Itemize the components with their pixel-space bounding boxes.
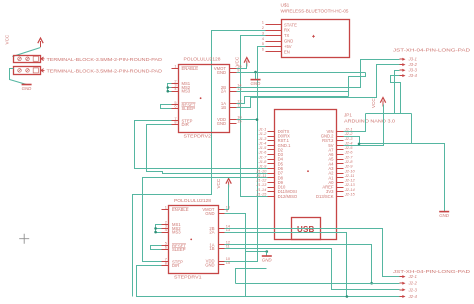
- svg-text:2A: 2A: [209, 230, 214, 235]
- svg-text:13: 13: [237, 86, 241, 91]
- STEPDRV1 MS1-MS2-MS3 tie wire: [156, 225, 162, 233]
- terminal block J4 pad arrow: [41, 57, 45, 61]
- JP1 pin J2-8 A4: [337, 163, 344, 165]
- U$1 pin 2 RX: [266, 30, 282, 32]
- STEPDRV2 pin 14 2B: [230, 87, 237, 89]
- terminal block J5 TERMINAL-BLOCK-3.5MM-2-PIN-ROUND-PAD: [14, 67, 41, 75]
- svg-text:J3-4: J3-4: [408, 73, 418, 78]
- connector J2 pad 3: [400, 289, 403, 291]
- STEPDRV2 pin 13 2A: [230, 91, 237, 93]
- wire U$1 RX net (to STEPDRV2 region): [133, 31, 266, 297]
- wire STEPDRV1 GND to ground below USB: [225, 214, 246, 297]
- STEPDRV2 pin 9 GND: [230, 72, 237, 74]
- STEPDRV2 pin 5 RESET: [172, 104, 179, 106]
- JP1 pin J2-14 3V3: [337, 191, 344, 193]
- JP1 pin J1-13 D10: [268, 187, 275, 189]
- JP1 pin J2-5 A7: [337, 149, 344, 151]
- wire nano VIN to upper bus: [344, 114, 366, 132]
- svg-text:TERMINAL-BLOCK-3.5MM-2-PIN-ROU: TERMINAL-BLOCK-3.5MM-2-PIN-ROUND-PAD: [47, 69, 163, 74]
- JP1 pin J1-9 D6: [268, 168, 275, 170]
- STEPDRV1 pin 1 ENABLE: [162, 209, 169, 211]
- junction GND net at 255.5,72: [254, 71, 257, 74]
- svg-text:JST-XH-04-PIN-LONG-PAD: JST-XH-04-PIN-LONG-PAD: [393, 269, 471, 274]
- svg-text:GND: GND: [251, 81, 262, 86]
- svg-text:9: 9: [226, 208, 228, 213]
- JP1 pin J1-5 D2: [268, 149, 275, 151]
- svg-text:J2-4: J2-4: [408, 294, 418, 299]
- svg-text:SLEEP: SLEEP: [172, 247, 186, 252]
- STEPDRV1 pin 14 2B: [219, 228, 225, 230]
- ground symbol (top-left): [22, 84, 32, 86]
- JP1 pin J1-2 D0/RX: [268, 136, 275, 138]
- JP1 pin J1-12 D9: [268, 182, 275, 184]
- wire STEPDRV1 1B to J2-3: [225, 249, 400, 290]
- svg-text:MS3: MS3: [182, 89, 191, 94]
- wire terminal block J5 to GND: [10, 69, 27, 85]
- JP1 pin J2-15 D13/SCK: [337, 196, 344, 198]
- JP1 pin J1-7 D4: [268, 159, 275, 161]
- wire J3-3 down right bus: [395, 71, 400, 114]
- power flag VCC (top-left): [40, 41, 42, 47]
- svg-text:TERMINAL-BLOCK-3.5MM-2-PIN-ROU: TERMINAL-BLOCK-3.5MM-2-PIN-ROUND-PAD: [47, 57, 163, 62]
- junction bottom bus 2A: [346, 295, 349, 298]
- wire upper right bus horizontal: [366, 113, 412, 115]
- connector J3 pad 2: [400, 64, 403, 66]
- STEPDRV2 pin 16 VMOT: [230, 68, 237, 70]
- svg-text:DIR: DIR: [182, 122, 189, 127]
- power flag VCC at STEPDRV1 VMOT: [228, 182, 230, 188]
- STEPDRV1 RESET-SLEEP tie wire: [151, 246, 162, 250]
- svg-text:SLEEP: SLEEP: [182, 106, 196, 111]
- ground symbol right (below bus): [439, 211, 449, 213]
- wire STEPDRV2 2B to J3-1: [237, 60, 400, 88]
- STEPDRV1 pin 3 MS2: [162, 228, 169, 230]
- JP1 pin J1-8 D5: [268, 163, 275, 165]
- driver STEPDRV1 POLOLULU2128 body: [169, 206, 219, 274]
- wire GND stub under nano USB: [266, 252, 268, 256]
- svg-text:GND: GND: [217, 121, 226, 126]
- svg-text:POLOLULU2128: POLOLULU2128: [184, 56, 221, 61]
- wire STEPDRV2 1A jog: [237, 97, 349, 104]
- STEPDRV1 pin 4 MS3: [162, 232, 169, 234]
- junction GND under USB: [266, 250, 269, 253]
- svg-text:GND: GND: [22, 86, 33, 91]
- svg-text:VCC: VCC: [371, 98, 376, 108]
- svg-text:J1-15: J1-15: [255, 191, 267, 196]
- svg-text:J3-1: J3-1: [408, 57, 418, 62]
- wire VCC to VMOT (STEPDRV2): [237, 64, 247, 69]
- wire GND branch to ground below USB: [246, 251, 267, 253]
- svg-text:D13/SCK: D13/SCK: [316, 194, 334, 199]
- connector J3 pad 3: [400, 69, 403, 71]
- terminal block J5 pad arrow: [41, 69, 45, 73]
- svg-text:8: 8: [174, 120, 176, 125]
- svg-text:VCC: VCC: [216, 178, 221, 188]
- driver STEPDRV2 POLOLULU2128 body: [179, 65, 230, 133]
- wire 1A-2A bridge: [348, 92, 350, 97]
- svg-text:GND: GND: [217, 70, 226, 75]
- wire STEPDRV2 2A to right bus: [237, 73, 366, 92]
- junction J2-2 feed: [370, 282, 373, 285]
- JP1 pin J1-14 D11/MOSI: [268, 191, 275, 193]
- JP1 origin cross: [307, 170, 309, 172]
- junction GND right bus: [358, 143, 361, 146]
- power flag VCC at STEPDRV2 VMOT: [246, 61, 248, 67]
- svg-text:ENABLE: ENABLE: [172, 207, 189, 212]
- ground symbol near STEPDRV2: [251, 79, 261, 81]
- svg-text:DIR: DIR: [172, 263, 179, 268]
- STEPDRV2 pin 2 MS1: [172, 83, 179, 85]
- JP1 pin J2-4 5V: [337, 145, 344, 147]
- junction MS3 tie (STEPDRV1): [154, 231, 157, 234]
- JP1 pin J2-13 AREF: [337, 187, 344, 189]
- svg-text:GND: GND: [205, 211, 214, 216]
- STEPDRV2 pin 12 1A: [230, 103, 237, 105]
- wire STEPDRV2 GND to ground and right bus: [237, 72, 366, 74]
- wire long net to J2-2: [236, 283, 400, 285]
- STEPDRV2 origin cross: [200, 97, 202, 99]
- svg-text:VCC: VCC: [234, 56, 239, 66]
- svg-text:J2-1: J2-1: [408, 274, 418, 279]
- wire STEPDRV2 STEP to nano D6: [135, 121, 268, 169]
- STEPDRV1 pin 2 MS1: [162, 224, 169, 226]
- STEPDRV2 pin 8 DIR: [172, 124, 179, 126]
- svg-text:1: 1: [165, 205, 167, 210]
- STEPDRV2 pin 1 ENABLE: [172, 68, 179, 70]
- svg-text:1B: 1B: [209, 246, 214, 251]
- svg-text:8: 8: [165, 260, 167, 265]
- wire STEPDRV1 2A to bottom bus: [225, 233, 347, 297]
- wire STEPDRV2 DIR to nano D7: [147, 125, 268, 174]
- wire VCC to terminal block J4 pin: [13, 48, 41, 57]
- JP1 pin J2-1 VIN: [337, 131, 344, 133]
- STEPDRV1 pin 13 2A: [219, 232, 225, 234]
- wire STEPDRV1 DIR to bottom bus (J2-4): [137, 266, 400, 297]
- STEPDRV1 pin 5 RESET: [162, 245, 169, 247]
- U$1 pin 4 GND: [266, 41, 282, 43]
- JP1 pin J1-10 D7: [268, 173, 275, 175]
- junction MS3 tie: [167, 90, 170, 93]
- junction MS2 tie (STEPDRV1): [154, 227, 157, 230]
- svg-text:EN: EN: [284, 49, 290, 54]
- STEPDRV1 origin cross: [190, 239, 192, 241]
- wire right bus down to GND run: [411, 114, 413, 144]
- svg-text:J3-2: J3-2: [408, 62, 418, 67]
- junction MS2 tie: [167, 86, 170, 89]
- JP1 pin J1-3 RST.1: [268, 140, 275, 142]
- wire VDD (STEPDRV2) stub to +5V vertical: [237, 119, 258, 121]
- STEPDRV2 pin 7 STEP: [172, 120, 179, 122]
- STEPDRV1 pin 6 SLEEP: [162, 249, 169, 251]
- terminal block J4 TERMINAL-BLOCK-3.5MM-2-PIN-ROUND-PAD: [14, 56, 41, 63]
- module U$1 WIRELESS-BLUETOOTH-HC-05 body: [282, 20, 350, 58]
- JP1 pin J1-4 GND.1: [268, 145, 275, 147]
- STEPDRV1 pin 9 GND: [219, 213, 225, 215]
- connector J3 pad 4: [400, 75, 403, 77]
- svg-text:GND: GND: [205, 262, 214, 267]
- connector J3 pad 1: [400, 58, 403, 60]
- svg-text:STEPDRV2: STEPDRV2: [184, 133, 212, 138]
- connector J2 pad 1: [400, 276, 403, 278]
- svg-text:+5V: +5V: [284, 44, 292, 49]
- svg-text:J3-3: J3-3: [408, 68, 418, 73]
- wire nano GND.2 to right GND: [344, 137, 445, 212]
- STEPDRV1 pin 8 DIR: [162, 265, 169, 267]
- svg-text:POLOLULU2128: POLOLULU2128: [174, 198, 211, 203]
- connector J2 pad 4: [400, 296, 403, 298]
- svg-text:ENABLE: ENABLE: [182, 66, 199, 71]
- wire U$1 TX net (down to nano D12/MISO): [241, 36, 268, 197]
- STEPDRV1 pin 7 STEP: [162, 261, 169, 263]
- svg-text:ARDUINO NANO 3.0: ARDUINO NANO 3.0: [344, 118, 395, 123]
- svg-text:GND: GND: [284, 39, 293, 44]
- svg-text:J2-15: J2-15: [344, 191, 356, 196]
- wire U$1 +5V net (down to stepper VDD): [225, 47, 266, 262]
- svg-text:6: 6: [174, 104, 176, 109]
- ground symbol below USB: [262, 255, 272, 257]
- wire J3-4 jog down: [391, 76, 401, 114]
- STEPDRV2 RESET-SLEEP tie wire: [161, 105, 172, 109]
- STEPDRV2 pin 10 VDD: [230, 119, 237, 121]
- JP1 pin J2-9 A3: [337, 168, 344, 170]
- JP1 pin J2-10 A2: [337, 173, 344, 175]
- JP1 pin J2-6 A6: [337, 154, 344, 156]
- JP1 pin J2-11 A1: [337, 177, 344, 179]
- U$1 pin 3 TX: [266, 35, 282, 37]
- connector J2 pad 2: [400, 282, 403, 284]
- module JP1 ARDUINO NANO 3.0 body: [275, 110, 337, 240]
- JP1 USB connector box: [292, 218, 321, 240]
- JP1 pin J1-15 D12/MISO: [268, 196, 275, 198]
- wire STEPDRV2 1B to J3-2: [237, 65, 400, 108]
- U$1 pin 1 STATE: [266, 24, 282, 26]
- STEPDRV2 pin 11 1B: [230, 107, 237, 109]
- STEPDRV2 pin 3 MS2: [172, 87, 179, 89]
- JP1 pin J2-3 RST.2: [337, 140, 344, 142]
- STEPDRV2 pin 15 GND: [230, 123, 237, 125]
- wire STEPDRV1 2B to J2-1: [225, 229, 400, 277]
- JP1 pin J2-12 A0: [337, 182, 344, 184]
- svg-text:2A: 2A: [221, 89, 226, 94]
- sheet origin cross marker: [19, 234, 29, 244]
- svg-text:J2-3: J2-3: [408, 287, 418, 292]
- STEPDRV1 pin 10 VDD: [219, 261, 225, 263]
- svg-text:STEPDRV1: STEPDRV1: [174, 275, 202, 280]
- svg-text:6: 6: [165, 244, 167, 249]
- JP1 pin J2-7 A5: [337, 159, 344, 161]
- svg-text:J2-2: J2-2: [408, 281, 418, 286]
- U$1 origin cross: [312, 35, 315, 38]
- power flag VCC right of nano: [382, 101, 384, 107]
- svg-text:RX: RX: [284, 28, 290, 33]
- svg-text:GND: GND: [439, 213, 450, 218]
- STEPDRV1 pin 15 GND: [219, 264, 225, 266]
- svg-text:STATE: STATE: [284, 22, 297, 27]
- svg-text:MS3: MS3: [172, 230, 181, 235]
- svg-text:13: 13: [226, 227, 230, 232]
- svg-text:TX: TX: [284, 33, 290, 38]
- wire Z-link from below USB to J2-2 net: [236, 269, 267, 284]
- svg-text:D12/MISO: D12/MISO: [278, 194, 298, 199]
- JP1 pin J2-2 GND.2: [337, 136, 344, 138]
- STEPDRV2 MS1-MS2-MS3 tie wire: [168, 84, 172, 92]
- JP1 pin J1-1 D0/TX: [268, 131, 275, 133]
- wire VCC to nano 5V pin: [344, 105, 384, 146]
- STEPDRV2 pin 4 MS3: [172, 91, 179, 93]
- svg-text:JP1: JP1: [344, 113, 352, 118]
- junction +5V at STEPDRV2 VDD: [256, 118, 259, 121]
- STEPDRV1 pin 16 VMOT: [219, 209, 225, 211]
- U$1 pin 6 EN: [266, 51, 282, 53]
- STEPDRV1 pin 12 1A: [219, 244, 225, 246]
- STEPDRV1 pin 11 1B: [219, 248, 225, 250]
- wire ground stub under GND junction: [255, 73, 257, 80]
- svg-text:WIRELESS-BLUETOOTH-HC-05: WIRELESS-BLUETOOTH-HC-05: [281, 9, 349, 14]
- wire STEPDRV1 1A to J2-2 vertical: [225, 245, 372, 284]
- svg-text:15: 15: [226, 260, 230, 265]
- svg-text:1: 1: [174, 64, 176, 69]
- svg-text:JST-XH-04-PIN-LONG-PAD: JST-XH-04-PIN-LONG-PAD: [393, 48, 471, 53]
- JP1 pin J1-11 D8: [268, 177, 275, 179]
- svg-text:1B: 1B: [221, 105, 226, 110]
- svg-text:GND: GND: [262, 258, 273, 263]
- wire VCC to VMOT (STEPDRV1): [225, 185, 229, 210]
- svg-text:VCC: VCC: [5, 34, 10, 44]
- STEPDRV2 pin 6 SLEEP: [172, 108, 179, 110]
- U$1 pin 5 +5V: [266, 46, 282, 48]
- wire STEPDRV1 STEP to nano D8: [143, 178, 268, 262]
- JP1 pin J1-6 D3: [268, 154, 275, 156]
